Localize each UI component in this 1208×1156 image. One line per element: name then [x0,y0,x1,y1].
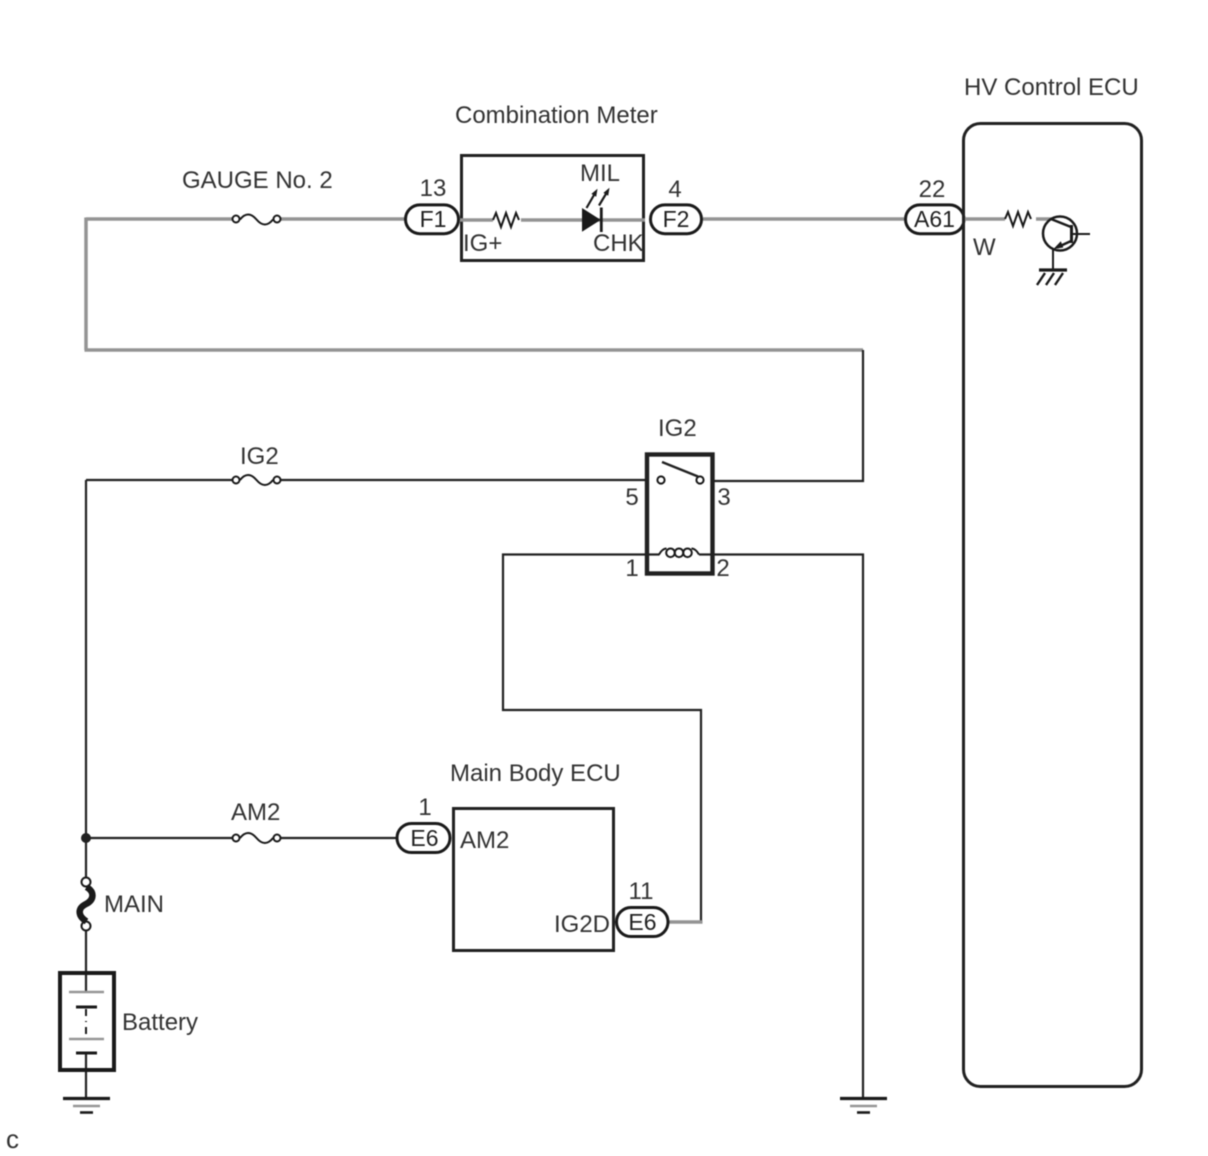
svg-text:Battery: Battery [122,1009,198,1036]
transistor Q1 [1043,217,1090,271]
Main Body ECU box [454,809,614,951]
svg-text:MAIN: MAIN [104,891,164,918]
svg-text:HV Control ECU: HV Control ECU [964,74,1139,101]
svg-text:5: 5 [625,484,638,511]
wire: gray horizontal y=350 [85,348,864,352]
battery [60,973,114,1070]
svg-text:F2: F2 [663,206,690,232]
svg-text:IG2: IG2 [240,443,279,470]
ground (relay coil) [840,1099,887,1113]
resistor in meter [493,213,519,227]
wire: battery feed top row to F1 (gray) [86,217,407,221]
svg-text:3: 3 [717,484,730,511]
svg-text:E6: E6 [628,909,656,935]
svg-text:1: 1 [625,555,638,582]
wire: AM2 fuse row (black) [86,837,398,839]
node: junction at AM2 tap [81,833,91,843]
svg-text:1: 1 [418,794,431,821]
svg-text:IG2D: IG2D [554,911,610,938]
svg-text:11: 11 [629,878,654,905]
svg-text:2: 2 [716,555,729,582]
svg-text:c: c [6,1124,19,1154]
svg-text:AM2: AM2 [231,799,280,826]
wire: E6-11 stub (gray) [669,920,703,924]
svg-text:MIL: MIL [580,160,620,187]
svg-text:22: 22 [919,176,946,203]
connector F1 pin 13 [406,205,459,234]
wire: left vertical black x=86 from IG2 row to battery [85,480,87,992]
svg-text:A61: A61 [914,206,955,232]
wire: battery to ground [85,1053,87,1098]
combination meter box [462,156,644,261]
fuse IG2 [233,475,281,485]
svg-text:CHK: CHK [593,230,644,257]
svg-text:IG2: IG2 [658,415,697,442]
svg-text:4: 4 [668,176,681,203]
fuse GAUGE No. 2 [233,215,281,225]
ground (transistor emitter) [1037,270,1067,285]
svg-text:13: 13 [420,175,447,202]
svg-text:F1: F1 [420,206,447,232]
wire: black vertical x=863 into relay pin 3 [714,350,863,481]
wire: relay coil pin1 to Main Body ECU E6-11 [503,555,701,922]
connector E6 pin 1 [397,824,450,853]
wire: ECU internal gray [965,217,1052,221]
relay switch contacts [657,462,703,484]
svg-text:IG+: IG+ [463,230,502,257]
fusible link MAIN [80,878,93,931]
fuse AM2 [233,833,281,843]
relay coil [659,549,699,558]
svg-text:Combination Meter: Combination Meter [455,102,658,129]
relay IG2 box [647,455,713,574]
connector F2 pin 4 [651,205,702,234]
connector A61 pin 22 [906,205,965,234]
HV Control ECU box [964,124,1142,1087]
svg-text:AM2: AM2 [460,827,509,854]
resistor in HV ECU [1005,212,1031,226]
ground (battery) [63,1099,110,1113]
svg-text:W: W [973,234,996,261]
wire: left vertical gray from top row down [84,218,88,351]
wire: F2 to A61 (gray) [703,217,904,221]
svg-text:GAUGE No. 2: GAUGE No. 2 [182,167,333,194]
wire: IG2 fuse row to relay pin 5 (black) [86,479,645,481]
wire: meter internal (gray) [460,218,645,222]
connector E6 pin 11 [617,908,669,937]
wire: relay coil pin2 to ground [699,555,863,1099]
svg-text:Main Body ECU: Main Body ECU [450,760,621,787]
svg-text:E6: E6 [410,825,438,851]
LED MIL [582,188,610,232]
